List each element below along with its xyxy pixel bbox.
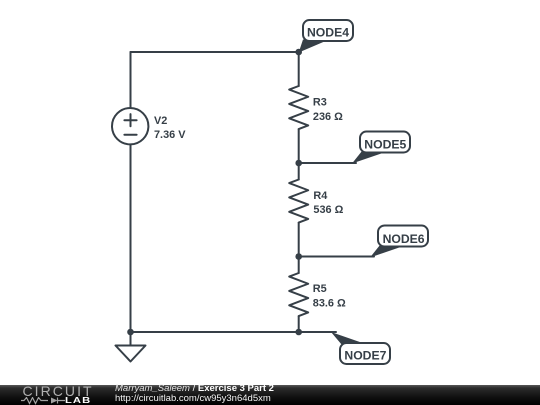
- wire top horizontal from V2 to NODE4 corner: [131, 51, 299, 53]
- CircuitLab logo wordmark LAB: [65, 396, 91, 405]
- NODE5 balloon tail: [352, 151, 387, 164]
- wire R4 to NODE6 junction: [298, 223, 300, 257]
- NODE4 balloon box: [303, 20, 353, 41]
- node E junction dot (ground): [127, 329, 134, 336]
- footer bar: [0, 385, 540, 405]
- NODE7 balloon box: [340, 343, 390, 364]
- wire NODE6 junction to R5: [298, 257, 300, 274]
- node D junction dot (bottom rail / NODE7): [295, 329, 302, 336]
- wire NODE5 junction to R4: [298, 163, 300, 180]
- wire R3 to NODE5 junction: [298, 129, 300, 163]
- V2 plus sign: [124, 114, 136, 126]
- CircuitLab logo wordmark CIRCUIT: [23, 384, 94, 398]
- svg-text:236 Ω: 236 Ω: [313, 111, 343, 123]
- voltage source V2 circle: [112, 108, 148, 144]
- node A junction dot (NODE4 corner): [295, 49, 302, 56]
- wire NODE5 stub to label tail: [299, 162, 356, 164]
- wire left vertical from top wire to V2 positive terminal: [130, 52, 132, 108]
- NODE6 balloon box: [378, 226, 428, 247]
- resistor R5: [289, 273, 308, 316]
- NODE5 balloon box: [360, 132, 410, 153]
- wire left vertical from V2 negative terminal to ground rail: [130, 145, 132, 332]
- resistor R4: [289, 180, 308, 223]
- svg-text:NODE7: NODE7: [344, 348, 386, 362]
- wire bottom rail from ground to NODE7: [131, 331, 337, 333]
- svg-text:536 Ω: 536 Ω: [313, 204, 343, 216]
- wire right vertical NODE4 to R3: [298, 52, 300, 86]
- svg-text:R4: R4: [313, 190, 327, 202]
- footer attribution line 1: [115, 384, 274, 394]
- svg-text:R5: R5: [313, 283, 327, 295]
- wire NODE6 stub to label tail: [299, 256, 374, 258]
- V2 minus sign: [124, 134, 136, 136]
- footer attribution line 2 (url): [115, 394, 271, 404]
- ground symbol triangle: [116, 346, 146, 362]
- svg-text:NODE4: NODE4: [307, 25, 349, 39]
- node C junction dot (NODE6): [295, 253, 302, 260]
- resistor R3: [289, 86, 308, 129]
- node B junction dot (NODE5): [295, 160, 302, 167]
- svg-text:NODE6: NODE6: [383, 232, 425, 246]
- NODE7 balloon tail: [331, 332, 367, 345]
- logo resistor-diode squiggle: [21, 397, 65, 405]
- NODE6 balloon tail: [370, 245, 405, 258]
- svg-text:R3: R3: [313, 97, 327, 109]
- svg-text:V2: V2: [154, 115, 167, 127]
- wire R5 to bottom rail: [298, 316, 300, 332]
- svg-text:7.36 V: 7.36 V: [154, 129, 186, 141]
- ground stub: [130, 332, 132, 346]
- svg-text:NODE5: NODE5: [364, 137, 406, 151]
- NODE4 balloon tail: [299, 40, 328, 53]
- svg-text:83.6 Ω: 83.6 Ω: [313, 298, 346, 310]
